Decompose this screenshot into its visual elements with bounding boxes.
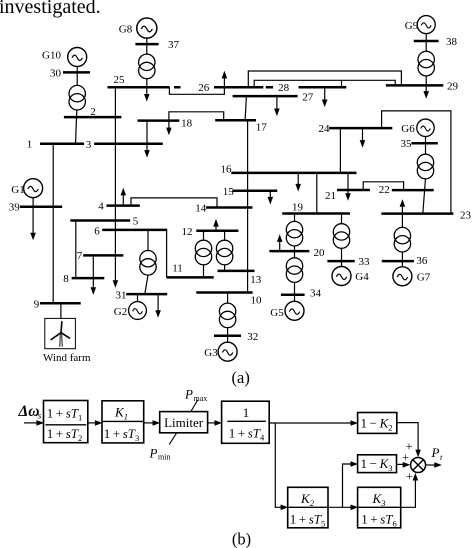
- transformer G10-30: [69, 85, 85, 110]
- svg-text:5: 5: [133, 216, 139, 228]
- bus 21: [337, 189, 370, 192]
- generator G3: [218, 342, 237, 361]
- generator G6: [417, 119, 434, 136]
- wire G10 transformer to bus 1: [76, 110, 77, 144]
- bus 29: [386, 84, 443, 87]
- svg-text:1: 1: [243, 405, 250, 420]
- arrowhead into K3 block: [351, 505, 359, 511]
- wire G9 circle to bus 38: [425, 34, 427, 41]
- bus 27: [233, 95, 298, 98]
- transformer 6-31: [140, 251, 156, 276]
- wind farm box: [45, 318, 76, 348]
- svg-text:1 + sT3: 1 + sT3: [104, 426, 140, 443]
- bus 38: [414, 40, 439, 43]
- wire 25-2-3-4-5-6 long vertical with load arrow: [114, 87, 116, 280]
- wire bus 34 to G5: [294, 295, 296, 302]
- svg-text:15: 15: [223, 186, 235, 198]
- arrowhead into block1: [36, 420, 44, 426]
- transformer 12-11: [195, 240, 211, 265]
- svg-text:+: +: [402, 451, 409, 465]
- wire bus 19 to transformer G4: [341, 214, 343, 224]
- load arrow bus 27: [274, 109, 280, 117]
- wire bus 33 to G4: [341, 261, 343, 267]
- generator G9: [417, 16, 435, 34]
- wire 5-8: [75, 221, 77, 279]
- wire transformer G4 to bus 33: [341, 248, 343, 261]
- wire arrow up above bus 26: [223, 78, 225, 87]
- load arrow bus 16: [295, 184, 301, 192]
- svg-text:Wind farm: Wind farm: [43, 352, 91, 364]
- bus 16: [231, 172, 356, 175]
- svg-text:G2: G2: [114, 306, 127, 318]
- bus 25: [108, 86, 170, 89]
- wire 1-39-9 vertical: [52, 144, 54, 303]
- bus 3: [94, 143, 163, 146]
- bus 10: [196, 291, 252, 294]
- svg-text:22: 22: [379, 184, 390, 196]
- wire line 26-28-29 inner loop: [254, 80, 395, 87]
- wire bus 31 to G2: [137, 294, 139, 302]
- wire bus 19 to transformer 19-20: [294, 214, 296, 222]
- svg-text:7: 7: [77, 250, 83, 262]
- load arrow bus 39: [30, 233, 36, 241]
- svg-text:1 + sT2: 1 + sT2: [47, 426, 83, 443]
- wire arrow up above bus 4: [122, 195, 124, 205]
- bus 18: [138, 119, 180, 122]
- bus 36: [382, 260, 414, 263]
- wire block4 to 1-K2 with branch node: [269, 422, 351, 424]
- wire arrow up above bus 12: [215, 226, 217, 231]
- svg-text:(b): (b): [232, 530, 251, 548]
- wire limiter-block4: [208, 422, 216, 424]
- wire bus 32 to G3: [227, 336, 229, 342]
- arrowhead summer output: [434, 462, 442, 468]
- wire bus 30 to transformer: [76, 72, 78, 85]
- svg-text:G10: G10: [42, 49, 61, 61]
- svg-text:Δω: Δω: [18, 403, 40, 420]
- wire G8 circle to bus 37: [146, 38, 148, 44]
- wire load below bus 15: [269, 191, 271, 198]
- svg-text:28: 28: [278, 82, 290, 94]
- wire bus 35 to transformer G6: [425, 143, 427, 154]
- wire bus 10 to transformer G3: [227, 293, 229, 304]
- wire bus 23 to transformer G7: [401, 214, 403, 228]
- transformer 19-33: [333, 224, 349, 249]
- generator G8: [137, 18, 157, 38]
- transformer G6-35: [417, 154, 433, 179]
- wire transformer to bus 31: [145, 275, 148, 294]
- wire 16-21: [347, 173, 349, 190]
- svg-text:9: 9: [34, 298, 40, 310]
- svg-text:G1: G1: [11, 184, 24, 196]
- svg-text:6: 6: [94, 225, 100, 237]
- bus 7: [83, 254, 123, 257]
- wire G9 transformer to bus 29: [425, 76, 427, 85]
- load arrow bus 18: [166, 128, 172, 136]
- bus 39: [20, 206, 62, 209]
- wire bus 37 to transformer: [146, 44, 148, 54]
- svg-text:39: 39: [9, 202, 21, 214]
- bus 5: [70, 219, 130, 222]
- block 1-K2: [358, 413, 397, 434]
- fraction bar K2 block: [289, 506, 328, 508]
- svg-text:19: 19: [292, 201, 304, 213]
- wire 16-19: [316, 173, 318, 214]
- svg-text:1 + sT5: 1 + sT5: [290, 511, 326, 528]
- wire block1-block2: [88, 422, 97, 424]
- wire bridge 18-17: [169, 112, 224, 121]
- load arrow bus 31: [155, 310, 161, 318]
- arrowhead into 1-K2: [351, 420, 359, 426]
- bus 30: [63, 71, 90, 74]
- block K3/1+sT6: [358, 487, 401, 528]
- wind turbine icon: [51, 321, 70, 347]
- bus 14: [206, 206, 253, 209]
- wire connector 4-14: [131, 198, 217, 208]
- wire 1-K3 output to summer: [397, 463, 405, 465]
- bus 15: [232, 189, 277, 192]
- svg-text:20: 20: [314, 247, 326, 259]
- wire 7-8 with load arrow: [92, 255, 94, 287]
- wire load below bus 31: [157, 294, 159, 310]
- wire bridge 21-22: [363, 182, 403, 190]
- gen arrow up bus 4: [121, 188, 127, 196]
- svg-text:37: 37: [168, 39, 180, 51]
- bus 22: [392, 189, 434, 192]
- svg-text:35: 35: [401, 138, 413, 150]
- wire G6 circle to bus 35: [425, 137, 427, 144]
- gen arrow up bus 12: [213, 219, 219, 227]
- arrowhead into summer from left: [403, 462, 411, 468]
- svg-text:P: P: [149, 445, 158, 460]
- svg-text:34: 34: [310, 287, 322, 299]
- svg-text:33: 33: [359, 256, 371, 268]
- transformer G8-37: [139, 54, 155, 79]
- bus 1: [40, 143, 84, 146]
- svg-text:1 + sT6: 1 + sT6: [361, 511, 397, 528]
- svg-text:max: max: [194, 394, 208, 403]
- bus 6: [102, 229, 167, 232]
- svg-text:G4: G4: [355, 271, 369, 283]
- block 1-K3: [358, 455, 397, 473]
- limiter P_min slant: [169, 433, 176, 445]
- generator G1: [24, 179, 43, 198]
- wire block2-limiter: [144, 422, 154, 424]
- svg-text:29: 29: [447, 80, 459, 92]
- bus 24: [329, 127, 392, 130]
- svg-text:G5: G5: [270, 307, 284, 319]
- load arrow bus 6 line: [113, 280, 119, 288]
- bus 28 (two segments, label gap): [266, 86, 347, 89]
- svg-text:G3: G3: [204, 347, 218, 359]
- svg-text:31: 31: [116, 290, 127, 302]
- svg-text:24: 24: [319, 123, 331, 135]
- wire transformer 12-11 to bus 11: [203, 265, 205, 278]
- svg-text:+: +: [406, 470, 413, 484]
- svg-text:30: 30: [50, 67, 62, 79]
- bus 20: [269, 250, 309, 253]
- svg-text:1 + sT1: 1 + sT1: [47, 406, 83, 423]
- svg-text:8: 8: [63, 273, 69, 285]
- svg-text:18: 18: [181, 117, 193, 129]
- load arrow bus 21: [345, 193, 351, 201]
- svg-text:(a): (a): [232, 368, 250, 387]
- svg-text:G6: G6: [401, 123, 415, 135]
- svg-text:4: 4: [98, 200, 104, 212]
- bus 2: [64, 116, 122, 119]
- wire transformer G7 to bus 36: [401, 252, 403, 261]
- gen arrow up bus 23: [400, 199, 406, 207]
- svg-text:36: 36: [416, 255, 428, 267]
- fraction bar block1: [45, 424, 86, 426]
- wire transformer G5 to bus 34: [294, 282, 296, 295]
- wire load below bus 21: [347, 190, 349, 194]
- svg-text:32: 32: [247, 331, 258, 343]
- svg-text:14: 14: [195, 203, 207, 215]
- wire branch down to K2 block: [275, 423, 281, 507]
- generator G4: [332, 267, 351, 286]
- block 1+sT1/1+sT2: [44, 401, 88, 443]
- bus 9: [40, 302, 81, 305]
- limiter P_max slant: [191, 400, 198, 412]
- gen arrow up bus 26: [222, 71, 228, 79]
- arrowhead into block2: [95, 420, 103, 426]
- bus 4: [107, 204, 140, 207]
- bus 33: [327, 260, 354, 263]
- svg-text:25: 25: [114, 74, 126, 86]
- bus 17: [215, 119, 256, 122]
- svg-text:1 + sT4: 1 + sT4: [229, 426, 265, 443]
- bus 34: [281, 294, 305, 297]
- wire transformer 12-13 to bus 13: [224, 265, 226, 271]
- wire bus 38 to transformer: [425, 41, 427, 52]
- wire G8 transformer to bus 25: [146, 79, 148, 87]
- arrowhead into block4: [215, 420, 223, 426]
- wire bus 20 to transformer G5: [294, 251, 296, 258]
- bus 19: [282, 212, 350, 215]
- svg-text:G9: G9: [405, 20, 419, 32]
- wire load below bus 39: [32, 207, 34, 233]
- arrowhead into summer from top: [415, 450, 421, 458]
- load arrow bus 3: [144, 150, 150, 158]
- wire transformer G6 to bus 23: [423, 179, 426, 214]
- wire bus 6 to transformer 6-31: [147, 230, 149, 251]
- transformer 20-34: [286, 258, 302, 283]
- load arrow bus 29: [423, 91, 429, 99]
- bus 11: [167, 276, 214, 279]
- load arrow bus 8 line: [91, 287, 97, 295]
- wire line 24-23: [382, 111, 451, 214]
- svg-text:21: 21: [325, 190, 336, 202]
- wire bus 9 to wind farm: [60, 303, 62, 318]
- svg-text:23: 23: [460, 209, 472, 221]
- wire K3 output up to summer: [401, 479, 416, 507]
- generator G10: [68, 48, 87, 67]
- fraction bar block4: [227, 420, 265, 422]
- block K1/1+sT3: [102, 401, 144, 443]
- wire load below bus 18: [168, 121, 170, 128]
- bus 26 (two segments, label gap): [174, 86, 263, 89]
- svg-text:G8: G8: [119, 23, 133, 35]
- wire bridge 25-26: [169, 87, 224, 94]
- wire bus 12 to transformer 12-11: [203, 231, 205, 241]
- svg-text:Limiter: Limiter: [164, 415, 204, 430]
- load arrow bus 15: [268, 197, 274, 205]
- transformer 23-36: [394, 227, 410, 252]
- transformer 12-13: [216, 240, 232, 265]
- bus 35: [411, 142, 437, 145]
- load arrow bus 28: [322, 100, 328, 108]
- wire 6-11: [166, 230, 168, 278]
- wire bus 12 to transformer 12-13: [224, 231, 226, 241]
- bus 23: [381, 212, 453, 215]
- generator G2: [129, 302, 147, 320]
- fraction bar block2: [103, 420, 143, 422]
- svg-text:26: 26: [198, 82, 210, 94]
- wire load below bus 25: [146, 87, 148, 94]
- svg-text:P: P: [431, 445, 440, 460]
- wire riser to 1-K3: [343, 464, 352, 507]
- svg-text:17: 17: [256, 121, 268, 133]
- wire riser inner loop to bus 28: [341, 80, 343, 87]
- wire transformer 19-20 to bus 20: [294, 246, 296, 251]
- wire load below bus 28: [324, 87, 326, 100]
- wire G1 to bus 39: [32, 198, 34, 207]
- wire line 26-29 outer loop: [248, 71, 401, 87]
- svg-text:11: 11: [172, 263, 183, 275]
- wire load below bus 29: [425, 85, 427, 91]
- svg-text:27: 27: [302, 92, 314, 104]
- transformer 19-20: [286, 221, 302, 246]
- wire arrow up above bus 23: [401, 207, 403, 214]
- svg-text:1: 1: [27, 139, 33, 151]
- svg-text:G7: G7: [417, 272, 431, 284]
- load arrow bus 25: [144, 94, 150, 102]
- svg-text:1 − K3: 1 − K3: [361, 456, 393, 473]
- block K2/1+sT5: [288, 487, 328, 528]
- svg-text:investigated.: investigated.: [0, 0, 101, 18]
- svg-text:P: P: [184, 387, 193, 402]
- block Limiter: [160, 412, 208, 433]
- bus 37: [135, 43, 158, 46]
- svg-text:1 − K2: 1 − K2: [361, 416, 393, 433]
- generator G7: [393, 267, 412, 286]
- gen arrow up bus 20: [277, 234, 283, 242]
- svg-text:3: 3: [86, 139, 92, 151]
- wire G10 circle to bus 30: [76, 67, 78, 73]
- svg-text:min: min: [158, 453, 170, 462]
- svg-text:2: 2: [90, 106, 96, 118]
- wire summer output: [426, 464, 437, 466]
- svg-text:10: 10: [251, 295, 263, 307]
- wire 27-17 slant: [245, 96, 246, 120]
- wire load below bus 27: [276, 96, 278, 109]
- svg-text:12: 12: [182, 226, 193, 238]
- arrowhead into limiter: [153, 420, 161, 426]
- generator G5: [285, 301, 304, 320]
- wire 1-K2 output to summer: [397, 423, 418, 451]
- wire input arrow shaft: [24, 422, 38, 424]
- arrowhead into 1-K3: [351, 461, 359, 467]
- wire bus 36 to G7: [401, 261, 403, 267]
- transformer 10-32: [219, 303, 235, 328]
- svg-text:s: s: [38, 411, 42, 421]
- svg-text:16: 16: [221, 164, 233, 176]
- summer circle with X: [411, 458, 426, 473]
- wire load below bus 24: [362, 128, 364, 140]
- wire K2 to K3 block: [328, 506, 352, 508]
- wire transformer G3 to bus 32: [227, 328, 229, 336]
- wire 17-16-15-14-13-10 long vertical: [247, 120, 249, 292]
- wire 18-3 with load arrow: [146, 121, 148, 151]
- bus 32: [214, 335, 241, 338]
- bus 13: [218, 270, 255, 273]
- block 1/1+sT4: [222, 401, 270, 443]
- svg-text:13: 13: [250, 274, 262, 286]
- svg-text:38: 38: [446, 36, 458, 48]
- wire load below bus 16: [297, 173, 299, 184]
- wire 24-16: [339, 128, 341, 173]
- fraction bar K3 block: [359, 506, 400, 508]
- bus 12: [196, 230, 238, 233]
- bus 8: [72, 277, 105, 280]
- wire arrow up above bus 20: [279, 242, 281, 251]
- load arrow bus 24: [360, 140, 366, 148]
- arrowhead into K2 block: [281, 505, 289, 511]
- arrowhead into summer from bottom: [413, 473, 419, 481]
- transformer G9-38: [418, 51, 434, 76]
- bus 31: [126, 293, 167, 296]
